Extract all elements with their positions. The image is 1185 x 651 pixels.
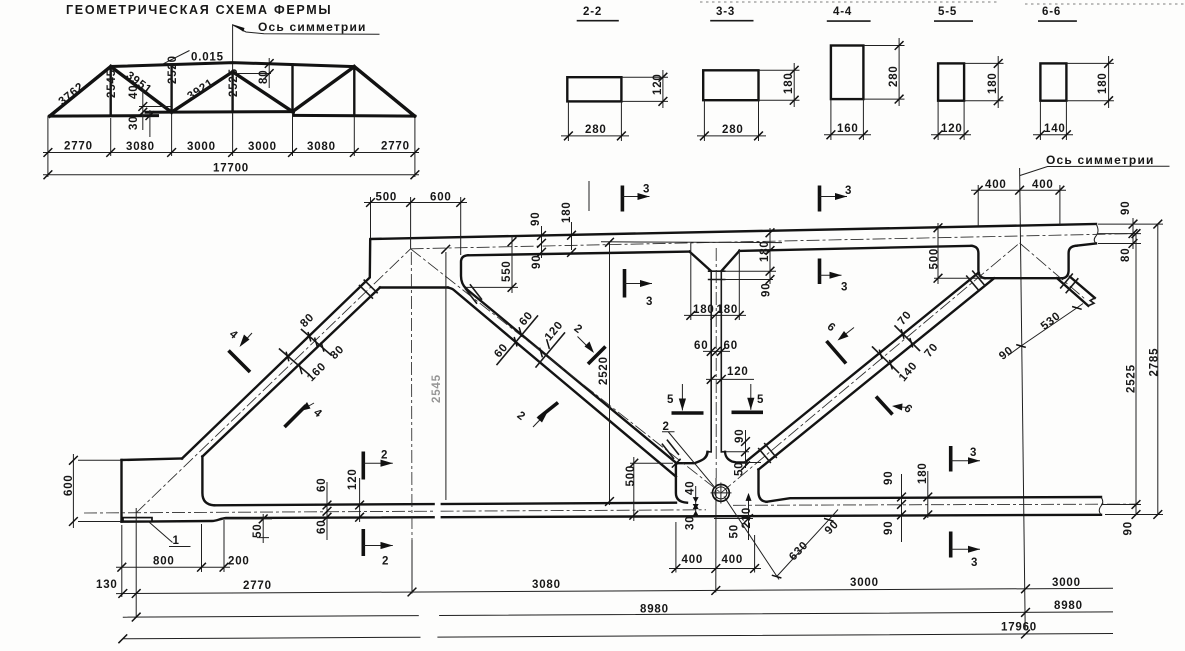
- svg-text:3080: 3080: [532, 579, 561, 591]
- svg-text:180: 180: [987, 72, 999, 94]
- scheme: row1 ticks: [44, 148, 53, 157]
- extension line at x=446: [445, 252, 447, 500]
- section mark 5 left: [667, 384, 704, 413]
- main: end block top edge: [122, 459, 183, 461]
- svg-text:280: 280: [888, 65, 900, 87]
- right edge dims: ext lines: [1098, 218, 1163, 515]
- main: centreline diagonal D3: [721, 243, 1020, 493]
- dim 500 left of centre node: [630, 457, 673, 521]
- main: centreline vertical member: [715, 248, 717, 478]
- dim 90/180/90 near x=545: extension lines: [542, 222, 572, 258]
- main: centreline bottom chord left: [84, 510, 706, 513]
- svg-text:ГЕОМЕТРИЧЕСКАЯ СХЕМА ФЕРМЫ: ГЕОМЕТРИЧЕСКАЯ СХЕМА ФЕРМЫ: [66, 3, 332, 17]
- section mark 2 upper (diagonal D2): [572, 323, 606, 364]
- dim 60/60/120 on diagonal D2: dim lines: [497, 316, 565, 367]
- extension line at x=411 (node axis): [410, 252, 413, 540]
- main: hatch pair on D2 upper end: [465, 285, 481, 303]
- svg-text:6: 6: [825, 321, 838, 335]
- svg-text:90: 90: [1120, 201, 1132, 215]
- svg-text:120: 120: [543, 319, 566, 343]
- svg-text:4: 4: [311, 407, 324, 421]
- svg-text:40: 40: [685, 481, 697, 495]
- scheme: vertical right of center: [291, 64, 293, 111]
- main: centreline end diagonal: [136, 249, 411, 513]
- centre node dim 40/30: ext line: [695, 486, 697, 517]
- main: diagonal D4 lower edge: [1057, 278, 1088, 306]
- main: end block bottom edge + bottom chord bottom edge: [122, 515, 1102, 522]
- main: end block left edge: [120, 460, 122, 522]
- main: centre node gusset right edge: [759, 470, 767, 502]
- svg-text:3000: 3000: [187, 141, 216, 153]
- dim 180 180 on vertical member: ext lines: [684, 243, 746, 320]
- svg-text:60: 60: [492, 341, 510, 360]
- svg-text:60: 60: [724, 340, 738, 352]
- scheme: dimension row 2 line 17700: [43, 174, 419, 176]
- scheme: bottom chord left segment: [50, 114, 158, 118]
- scheme: 40 dim detail at left node: [139, 106, 172, 108]
- main: hatch pair on D2 lower end: [662, 440, 678, 458]
- section 4-4 rectangle: [831, 46, 864, 100]
- section mark 4 lower: [285, 402, 325, 427]
- svg-text:90: 90: [1123, 521, 1135, 535]
- svg-text:280: 280: [722, 124, 744, 136]
- svg-text:2: 2: [515, 410, 528, 424]
- scheme: bottom chord raised middle segment: [146, 110, 294, 114]
- svg-text:400: 400: [682, 554, 704, 566]
- svg-text:2545: 2545: [106, 69, 118, 98]
- svg-text:90: 90: [530, 212, 542, 226]
- main: top chord bottom edge segment 3: [1077, 243, 1097, 245]
- svg-text:6: 6: [901, 402, 914, 416]
- svg-text:60: 60: [694, 340, 708, 352]
- svg-text:80: 80: [258, 70, 270, 84]
- main: centre node flare right: [725, 452, 747, 463]
- grid axis line at support: [135, 508, 137, 618]
- svg-text:280: 280: [585, 124, 607, 136]
- svg-text:2770: 2770: [243, 580, 272, 592]
- dim 630: extension along diagonal and dim line: [724, 497, 838, 580]
- section 5-5 dim 120: [931, 101, 971, 140]
- scheme: step line right node: [292, 112, 294, 116]
- svg-text:120: 120: [727, 366, 749, 378]
- main: hole cross marks: [711, 483, 732, 504]
- svg-text:Ось симметрии: Ось симметрии: [1046, 153, 1155, 167]
- svg-text:50: 50: [252, 524, 264, 538]
- dim 600 at end block: ext lines: [73, 454, 121, 528]
- section mark 3 top pair left: upper: [622, 184, 650, 212]
- svg-text:160: 160: [837, 123, 859, 135]
- main: top chord bottom edge segment 2: [739, 246, 971, 251]
- main: vertical member bottom notch lines: [708, 451, 726, 453]
- main: centreline top chord: [411, 234, 1133, 249]
- svg-text:3921: 3921: [185, 77, 216, 103]
- svg-text:550: 550: [501, 260, 513, 282]
- dim 500/600 at apex: extension lines: [371, 197, 461, 255]
- svg-text:2-2: 2-2: [583, 6, 602, 18]
- section mark 4 upper: [227, 328, 252, 372]
- dimension row 1: [116, 588, 1113, 593]
- main: axis label leader: [1020, 166, 1170, 175]
- svg-text:3: 3: [646, 296, 653, 308]
- section mark 3 top pair right: upper: [820, 185, 853, 212]
- main: diagonal D4 end break: [1088, 298, 1095, 306]
- svg-text:17960: 17960: [1001, 622, 1037, 634]
- section 2-2 rectangle: [567, 77, 621, 101]
- main: diagonal D2 upper edge (apex to centre node): [467, 289, 677, 463]
- svg-text:2: 2: [572, 323, 585, 337]
- svg-text:5: 5: [667, 394, 674, 406]
- apex star tick: [441, 245, 450, 254]
- dim 800/200: ext lines: [116, 520, 230, 597]
- svg-text:50: 50: [729, 524, 741, 538]
- svg-text:180: 180: [783, 72, 795, 94]
- svg-text:90: 90: [734, 429, 746, 443]
- svg-text:3000: 3000: [248, 141, 277, 153]
- svg-text:5: 5: [757, 394, 764, 406]
- svg-text:3080: 3080: [307, 141, 336, 153]
- scheme: 30 dim detail: [149, 110, 151, 137]
- scheme: center vertical 2525: [231, 72, 233, 112]
- svg-text:90: 90: [761, 283, 773, 297]
- section mark 6 lower: [876, 397, 915, 417]
- main: vertical member cap lines: [709, 271, 725, 279]
- dim 60/60 on bottom chord: ext vertical 1: [327, 478, 360, 540]
- section 3-3 dim 280: [697, 100, 766, 141]
- svg-text:2520: 2520: [598, 356, 610, 385]
- dim 2785 line: [1157, 224, 1159, 514]
- section 6-6 dim 180: [1066, 56, 1114, 108]
- svg-text:3: 3: [971, 557, 978, 569]
- main: diagonal D3 upper edge (centre node to sym node): [746, 273, 979, 462]
- main: hatch pair on D4: [1061, 274, 1078, 293]
- section 3-3 dim 180: [759, 63, 800, 107]
- scheme: top chord: [50, 63, 415, 117]
- svg-text:3080: 3080: [126, 141, 155, 153]
- main: centreline diagonal D4: [1020, 243, 1085, 299]
- svg-text:2: 2: [663, 421, 670, 433]
- dim 70/70/140 on diagonal D3: dim lines: [873, 326, 920, 373]
- svg-text:3762: 3762: [57, 81, 87, 108]
- scheme: slope mark 0.015: [164, 51, 223, 64]
- main: sym node gusset left side: [972, 246, 986, 278]
- svg-text:600: 600: [430, 192, 452, 204]
- svg-text:3-3: 3-3: [716, 6, 735, 18]
- svg-text:3: 3: [841, 282, 848, 294]
- svg-text:2: 2: [381, 450, 388, 462]
- svg-text:5-5: 5-5: [938, 6, 957, 18]
- svg-text:180: 180: [717, 304, 739, 316]
- svg-text:2785: 2785: [1149, 348, 1161, 377]
- main: diagonal D2 lower edge: [448, 288, 676, 477]
- main: apex gusset bottom edge: [380, 286, 448, 288]
- stray vertical line above chord: [588, 181, 590, 211]
- svg-text:400: 400: [1032, 179, 1054, 191]
- main: end diagonal top edge: [182, 240, 370, 459]
- main: centreline bottom chord right: [733, 504, 1136, 505]
- section mark 3 bottom pair: upper: [951, 446, 980, 472]
- dim 180/90 right of vertical member: ext+dim lines: [723, 228, 776, 284]
- svg-text:70: 70: [896, 309, 914, 328]
- main: apex gusset vertical edge with fillets: [461, 255, 468, 289]
- svg-text:400: 400: [722, 554, 744, 566]
- svg-text:8980: 8980: [1054, 600, 1083, 612]
- svg-text:3: 3: [845, 185, 852, 197]
- main: diagonal D3 lower edge: [759, 278, 995, 469]
- main: hatch pair on end diagonal upper end: [360, 280, 378, 298]
- section 5-5 dim 180: [964, 56, 1003, 108]
- scheme: vertical 2545 (right): [353, 67, 355, 116]
- dim 2520: line: [609, 242, 611, 505]
- scan gap in bottom chord: [435, 499, 441, 522]
- svg-text:3000: 3000: [1052, 577, 1081, 589]
- main: centre node gusset left edge: [676, 463, 687, 503]
- dim 500 at sym node: [934, 223, 982, 284]
- main: vertical extension below centre node to dims: [715, 478, 717, 593]
- svg-text:2520: 2520: [167, 55, 179, 84]
- section 5-5 rectangle: [938, 63, 964, 100]
- svg-text:120: 120: [941, 123, 963, 135]
- scheme: axis leader line: [233, 25, 380, 34]
- section mark 3 top pair right: lower: [820, 259, 849, 294]
- svg-text:530: 530: [1039, 310, 1063, 333]
- svg-text:80: 80: [298, 311, 317, 330]
- svg-text:400: 400: [985, 179, 1007, 191]
- scheme: axis leader arrowhead: [233, 24, 245, 31]
- svg-text:2770: 2770: [381, 141, 410, 153]
- section mark 5 right: [732, 384, 765, 412]
- scheme: vertical 2545 (left): [109, 67, 111, 116]
- scheme: diagonal center-right: [233, 72, 293, 112]
- section mark 2 lower (bottom chord): [363, 529, 393, 568]
- label 1 leader: [149, 522, 191, 547]
- faint scan dotted lines top: [700, 2, 1185, 4]
- svg-text:3: 3: [643, 184, 650, 196]
- main: end block inner edge with fillet to bottom chord: [202, 457, 214, 506]
- main: symmetry axis vertical line: [1020, 168, 1026, 629]
- svg-text:180: 180: [561, 201, 573, 223]
- scheme: diagonal 3951: [111, 67, 172, 113]
- svg-text:3000: 3000: [850, 577, 879, 589]
- svg-text:1: 1: [173, 535, 180, 547]
- dim 120 on vertical member: [706, 378, 754, 380]
- svg-text:130: 130: [96, 579, 118, 591]
- svg-text:90: 90: [883, 521, 895, 535]
- main: vertical member right edge: [720, 271, 722, 452]
- section mark 6 upper: [825, 321, 854, 364]
- dim 50 on bottom chord near left: [222, 514, 272, 543]
- svg-text:70: 70: [923, 341, 941, 360]
- svg-text:600: 600: [63, 474, 75, 496]
- main: sym node gusset right side: [1063, 246, 1077, 279]
- svg-text:2545: 2545: [431, 374, 443, 403]
- svg-text:90: 90: [997, 344, 1016, 362]
- svg-text:50: 50: [734, 462, 746, 476]
- section 6-6 rectangle: [1040, 63, 1066, 100]
- section 6-6 dim 140: [1033, 101, 1073, 140]
- svg-text:30: 30: [685, 516, 697, 530]
- main: hatch pair on D3 lower end: [759, 444, 777, 463]
- scheme: diagonal 3921: [172, 72, 233, 112]
- main: sym node gusset bottom edge: [985, 277, 1063, 279]
- main: hole circle at centre node: [713, 485, 730, 502]
- centre node dim 210/50 below: line with arrow: [714, 494, 753, 540]
- dim 530 at sym node: [1008, 304, 1083, 356]
- main: top chord bottom edge segment 1: [468, 252, 690, 256]
- dim 400 400 under centre node: [669, 522, 761, 573]
- dim 400 400 at sym node top: [971, 185, 1066, 227]
- main: vertical member V-haunch right: [721, 251, 739, 271]
- svg-text:90: 90: [883, 471, 895, 485]
- dimension row 2 (8980): [123, 612, 1113, 617]
- main: bottom chord cut end break line: [1099, 497, 1103, 515]
- main: top chord cut end break line: [1094, 224, 1098, 244]
- main: label 2 leader to hole: [662, 432, 714, 487]
- svg-text:80: 80: [1120, 248, 1132, 262]
- svg-text:500: 500: [625, 465, 637, 487]
- svg-text:30: 30: [128, 116, 140, 130]
- svg-text:3: 3: [970, 447, 977, 459]
- ext line from 2520 top point: [601, 241, 782, 244]
- scheme: diagonal up right: [293, 67, 355, 112]
- svg-text:140: 140: [1044, 123, 1066, 135]
- section mark 2 upper (bottom chord): [363, 450, 393, 480]
- main: centre node flare left: [676, 452, 708, 463]
- svg-text:2: 2: [382, 556, 389, 568]
- svg-text:2770: 2770: [64, 141, 93, 153]
- svg-text:60: 60: [517, 309, 535, 328]
- svg-text:4-4: 4-4: [833, 6, 852, 18]
- main: top chord top edge: [371, 224, 1097, 239]
- svg-text:160: 160: [305, 360, 329, 384]
- scheme: dimension row 1 line: [43, 152, 419, 154]
- svg-text:800: 800: [153, 556, 175, 568]
- main: end diagonal bottom edge: [202, 288, 380, 457]
- svg-text:500: 500: [376, 192, 398, 204]
- svg-text:60: 60: [316, 478, 328, 492]
- svg-text:80: 80: [328, 343, 347, 362]
- section 4-4 dim 280: [863, 38, 904, 106]
- dimension row 3 (17960): [123, 634, 1113, 639]
- centre node dim 90 and 50: ext lines: [726, 430, 761, 468]
- section 2-2 dim 280: [561, 101, 629, 141]
- svg-text:Ось симметрии: Ось симметрии: [258, 20, 367, 34]
- dim 60 60 on vertical member: [703, 350, 730, 352]
- main: hatch pair on D3 upper end: [967, 271, 985, 290]
- svg-text:4: 4: [227, 328, 240, 342]
- dim 2525 line: [1135, 234, 1137, 515]
- svg-text:40: 40: [128, 85, 140, 99]
- section 3-3 rectangle: [703, 70, 758, 100]
- svg-text:17700: 17700: [213, 163, 249, 175]
- main: vertical member V-haunch left: [690, 252, 712, 272]
- section mark 2 lower (diagonal D2): [515, 403, 558, 428]
- svg-text:180: 180: [693, 304, 715, 316]
- main: bearing plate (pos.1): [123, 518, 152, 522]
- scheme: vertical 2520: [170, 65, 172, 113]
- main: centreline diagonal D2: [411, 249, 721, 493]
- scheme: dim 80 under top chord: [237, 73, 271, 75]
- main: bottom chord top edge left of centre node: [214, 503, 676, 506]
- svg-text:120: 120: [652, 73, 664, 95]
- svg-text:90: 90: [823, 518, 842, 537]
- scheme: diagonal end right: [354, 67, 414, 117]
- svg-text:500: 500: [929, 248, 941, 270]
- scheme: dimension row 1 extension lines: [48, 113, 415, 177]
- svg-text:180: 180: [759, 240, 771, 262]
- scheme: axis of symmetry vertical line: [232, 24, 234, 130]
- section mark 3 bottom pair: lower: [951, 532, 980, 570]
- dim 500/600 line: [364, 202, 467, 204]
- scheme: diagonal 3762: [50, 67, 111, 117]
- svg-text:6-6: 6-6: [1042, 6, 1061, 18]
- section 2-2 dim 120: [621, 70, 668, 108]
- svg-text:200: 200: [228, 556, 250, 568]
- section 4-4 dim 160: [824, 99, 871, 140]
- svg-text:90: 90: [531, 255, 543, 269]
- svg-text:140: 140: [897, 360, 920, 384]
- main: bottom chord top edge right of centre node: [767, 497, 1102, 502]
- scheme: bottom chord right segment: [294, 114, 415, 118]
- svg-text:60: 60: [316, 520, 328, 534]
- svg-text:8980: 8980: [640, 604, 669, 616]
- svg-text:180: 180: [1097, 72, 1109, 94]
- svg-text:2525: 2525: [1126, 364, 1138, 393]
- main: vertical member left edge: [710, 271, 712, 452]
- svg-text:2525: 2525: [228, 68, 240, 97]
- main: diagonal D4 upper edge (beyond axis): [1070, 277, 1095, 298]
- svg-text:120: 120: [347, 468, 359, 490]
- dim 550: line and ticks: [466, 236, 518, 293]
- svg-text:180: 180: [917, 462, 929, 484]
- dim 90/180/90 on bottom chord right: [902, 471, 928, 542]
- section mark 3 top pair left: lower: [625, 269, 654, 308]
- dim 80/80/160 on end diagonal: dim lines: [280, 330, 332, 375]
